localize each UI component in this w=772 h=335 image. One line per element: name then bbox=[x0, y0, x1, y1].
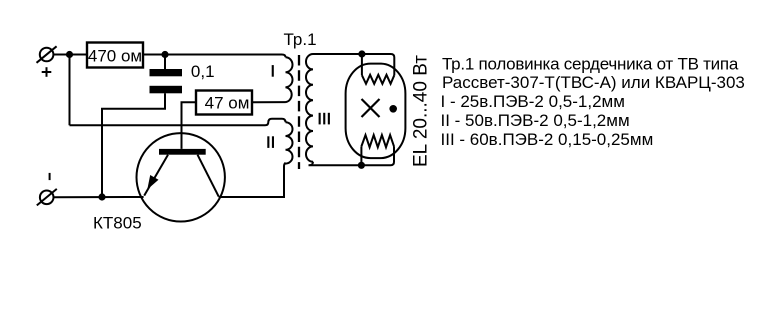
lamp EL1 top filament bbox=[362, 75, 394, 84]
lamp EL1 envelope bbox=[346, 64, 406, 159]
lamp EL1 dot mark bbox=[389, 105, 397, 113]
svg-text:III - 60в.ПЭВ-2 0,15-0,25мм: III - 60в.ПЭВ-2 0,15-0,25мм bbox=[441, 130, 654, 149]
svg-text:Тр.1: Тр.1 bbox=[284, 30, 317, 49]
wire winding III bottom to lamp bbox=[309, 146, 395, 165]
lamp EL1 cross mark bbox=[362, 99, 380, 117]
svg-text:Тр.1 половинка сердечника от Т: Тр.1 половинка сердечника от ТВ типа bbox=[442, 54, 739, 73]
wire rail R1 to C1 node and winding I with corner bbox=[143, 55, 286, 58]
svg-text:I - 25в.ПЭВ-2 0,5-1,2мм: I - 25в.ПЭВ-2 0,5-1,2мм bbox=[441, 92, 625, 111]
transistor VT1 emitter line bbox=[144, 155, 168, 196]
wire top rail left bbox=[53, 54, 87, 56]
transformer T1 winding I bbox=[286, 57, 293, 102]
svg-text:47 ом: 47 ом bbox=[205, 93, 250, 112]
transformer T1 winding II bbox=[285, 122, 293, 163]
svg-text:КТ805: КТ805 bbox=[93, 213, 142, 232]
label winding III bbox=[319, 113, 330, 125]
junction node A (plus rail / R1 left) bbox=[66, 51, 73, 58]
svg-text:470 ом: 470 ом bbox=[88, 46, 142, 65]
label winding I bbox=[272, 65, 274, 77]
lamp EL1 bottom filament bbox=[361, 135, 394, 147]
svg-text:II - 50в.ПЭВ-2 0,5-1,2мм: II - 50в.ПЭВ-2 0,5-1,2мм bbox=[441, 111, 630, 130]
wire lamp bottom-left filament lead bbox=[360, 146, 362, 165]
junction node C (minus rail / C1 bottom) bbox=[98, 193, 105, 200]
transistor VT1 circle bbox=[137, 133, 225, 221]
resistor R2 box 47 om bbox=[196, 91, 252, 115]
wire collector to winding II bottom bbox=[219, 163, 286, 197]
wire winding III top to lamp bbox=[313, 54, 394, 75]
note text block bbox=[441, 54, 745, 149]
transformer T1 core (dash-dot line) bbox=[298, 55, 300, 169]
junction node B (R1 right / C1 top) bbox=[161, 51, 168, 58]
wire emitter rail bbox=[54, 196, 144, 198]
capacitor C1 plates bbox=[150, 69, 183, 93]
resistor R1 box bbox=[87, 43, 143, 68]
wire R2 left to base of VT1 bbox=[182, 102, 197, 149]
wire plus-rail to winding II top (left branch with jog) bbox=[70, 55, 286, 126]
transistor VT1 emitter arrow bbox=[147, 175, 158, 190]
terminal X1 plus bbox=[37, 46, 57, 63]
label plus bbox=[42, 67, 52, 77]
label winding II bbox=[267, 136, 274, 148]
transistor VT1 base bar bbox=[159, 149, 206, 155]
wire lamp top-left filament lead bbox=[361, 54, 363, 75]
svg-text:0,1: 0,1 bbox=[191, 62, 215, 81]
svg-text:Рассвет-307-Т(ТВС-А) или КВАРЦ: Рассвет-307-Т(ТВС-А) или КВАРЦ-303 bbox=[442, 73, 745, 92]
junction node D (lamp top) bbox=[358, 50, 365, 57]
transformer T1 winding III bbox=[306, 54, 313, 162]
wire winding I bottom to R2 right bbox=[252, 101, 286, 103]
svg-text:EL 20...40 Вт: EL 20...40 Вт bbox=[411, 55, 432, 167]
capacitor C1 leads bbox=[102, 55, 165, 198]
junction node E (lamp bottom) bbox=[358, 162, 365, 169]
label minus bbox=[49, 173, 51, 180]
transistor VT1 collector line bbox=[198, 155, 219, 197]
terminal X2 minus bbox=[37, 189, 57, 206]
